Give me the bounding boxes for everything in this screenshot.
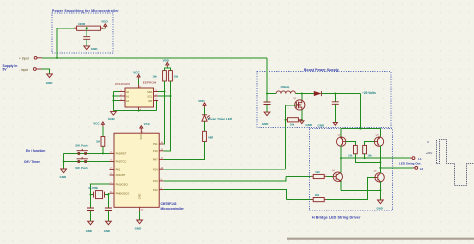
ground (mosfet source)	[300, 121, 313, 127]
junction A1 tie	[112, 95, 114, 97]
svg-text:Power Smoothing for Microcontr: Power Smoothing for Microcontroller	[52, 9, 119, 13]
wire P13 to left base resistor	[163, 176, 286, 181]
capacitor C osc1	[87, 208, 94, 211]
diode D2 boost	[314, 91, 322, 96]
svg-text:GND: GND	[305, 123, 313, 127]
svg-text:PM1/OSCI: PM1/OSCI	[116, 182, 129, 186]
svg-text:P13: P13	[153, 179, 158, 183]
resistor R SDA pullup	[152, 71, 166, 81]
resistor R led 68R	[203, 131, 214, 141]
power flag VCC (mcu)	[140, 122, 151, 130]
junction output cap	[334, 93, 336, 95]
wire emitters to gnd	[379, 190, 381, 200]
svg-text:GND: GND	[104, 229, 110, 233]
resistor R gate pulldown 10k	[286, 118, 302, 127]
capacitor C in (boost)	[264, 94, 271, 112]
wire npn-left base	[327, 175, 334, 177]
resistor R SCL pullup	[169, 71, 179, 81]
svg-text:Off / Timer: Off / Timer	[24, 160, 41, 164]
transistor Q3 PNP right	[374, 129, 383, 147]
junction A2 tie	[112, 100, 114, 102]
svg-text:GND: GND	[262, 122, 270, 126]
junction mosfet source/pulldown	[301, 119, 303, 121]
svg-text:32.768k: 32.768k	[88, 186, 98, 190]
block box: Boost Power Supply	[257, 72, 391, 128]
svg-text:10k: 10k	[152, 75, 157, 79]
svg-text:H Bridge LED String Driver: H Bridge LED String Driver	[312, 215, 361, 219]
pin VCC of eeprom	[138, 85, 140, 89]
svg-text:P10: P10	[153, 149, 158, 153]
resistor R npn-left base 1k0	[286, 170, 327, 179]
block box: Power Smoothing for Microcontroller	[52, 13, 113, 53]
power flag VCC (rst pullup)	[93, 122, 104, 127]
ground (supply minus)	[46, 74, 54, 85]
junction rail/smoothing feed	[56, 57, 58, 59]
junction eeprom gnd pin	[138, 110, 140, 112]
junction L2 node	[379, 167, 381, 169]
LED D1 green timer	[202, 115, 233, 121]
svg-text:VCC: VCC	[144, 122, 151, 126]
wire +5V rail	[42, 57, 267, 59]
svg-text:P11: P11	[153, 142, 158, 146]
svg-text:L2: L2	[420, 167, 424, 171]
svg-text:AT24C02N: AT24C02N	[115, 82, 130, 86]
svg-text:GND: GND	[86, 229, 92, 233]
wire OSC1 to crystal	[91, 184, 110, 195]
svg-text:100uH: 100uH	[280, 85, 289, 89]
svg-text:GND: GND	[108, 117, 116, 121]
MCU body	[114, 133, 159, 207]
svg-text:PM0/OSCO: PM0/OSCO	[116, 191, 130, 195]
wire OSC2 to crystal	[108, 193, 109, 194]
waveform trace	[437, 140, 474, 186]
svg-text:100R: 100R	[78, 22, 86, 26]
svg-text:Microcontroller: Microcontroller	[161, 207, 185, 211]
capacitor C out (boost)	[332, 94, 339, 123]
EEPROM U2 body	[125, 88, 154, 107]
wire rail-to-resistor	[57, 28, 74, 58]
svg-text:+ Input: + Input	[19, 56, 29, 60]
svg-text:10k: 10k	[290, 122, 295, 126]
junction emitters	[379, 189, 381, 191]
svg-text:PA4/INT: PA4/INT	[116, 173, 126, 177]
svg-text:PA7: PA7	[153, 158, 158, 162]
svg-text:VDD: VDD	[101, 20, 108, 24]
right pin PA7	[159, 158, 163, 160]
ground (buttons)	[60, 169, 68, 179]
ground (mcu)	[135, 220, 143, 231]
junction cross-couple right	[379, 161, 381, 163]
svg-text:L1: L1	[418, 157, 422, 161]
ground (osc cap1)	[86, 221, 94, 233]
wire cap1 to gnd	[90, 211, 92, 221]
wire -input to gnd	[41, 69, 49, 74]
ground (h-bridge)	[377, 200, 384, 210]
wire SCL to pullup column	[158, 95, 170, 97]
resistor R base left 10k	[348, 145, 357, 157]
svg-text:GND: GND	[318, 123, 326, 127]
connector pin + Input	[19, 56, 42, 60]
power flag VDD (pullups)	[163, 59, 170, 67]
junction buttons common	[63, 161, 65, 163]
pin A1	[119, 95, 125, 97]
wire diode to output corner	[321, 93, 360, 95]
svg-text:VDD: VDD	[140, 134, 143, 139]
svg-text:LED String Out: LED String Out	[399, 162, 421, 166]
wire right resistor to row1	[364, 154, 366, 158]
junction SDA	[164, 91, 166, 93]
junction mosfet drain	[301, 93, 303, 95]
pin A0	[119, 91, 125, 93]
junction right resistor bottom	[364, 157, 366, 159]
left pin PA4/INT	[110, 174, 115, 176]
resistor R base right 10k	[363, 145, 373, 157]
svg-text:10k: 10k	[174, 75, 179, 79]
wire address-pins tie	[113, 92, 119, 111]
crystal Y1 32.768k	[88, 186, 108, 198]
svg-text:VCC: VCC	[133, 71, 140, 75]
eeprom pin numbers	[120, 86, 157, 111]
svg-text:GND: GND	[60, 175, 68, 179]
wire cap to gnd	[86, 40, 88, 46]
junction L1 node	[340, 157, 342, 159]
block box: H Bridge LED String Driver	[310, 129, 393, 211]
svg-text:SW_Push: SW_Push	[75, 166, 88, 170]
svg-text:PA2/TCC: PA2/TCC	[116, 160, 127, 164]
mosfet Q1 N-channel	[295, 94, 305, 120]
resistor R pullup 1M	[96, 137, 105, 147]
junction boost input	[266, 93, 268, 95]
switch SW2 SW_Push	[75, 157, 88, 170]
svg-text:En / function: En / function	[26, 149, 45, 153]
waveform axis	[436, 140, 438, 164]
svg-text:CMT8F143: CMT8F143	[161, 202, 177, 206]
wire left resistor cross-couple	[355, 154, 380, 163]
connector pin L1	[410, 157, 422, 161]
wire top rail	[341, 128, 380, 130]
svg-text:SDA: SDA	[147, 91, 152, 94]
pin VDD top	[140, 131, 142, 134]
transistor Q2 PNP left	[337, 129, 346, 147]
wire vdd to led	[204, 107, 206, 114]
wire pnp-left base to resistor	[346, 142, 356, 146]
wire buttons common to gnd	[63, 153, 65, 168]
svg-text:VDD: VDD	[163, 59, 170, 63]
svg-text:- Input: - Input	[19, 68, 28, 72]
svg-text:PA1: PA1	[116, 168, 121, 172]
svg-text:GND: GND	[377, 206, 383, 210]
pin numbers mcu	[110, 131, 164, 211]
ground (boost output cap)	[318, 122, 338, 127]
switch SW1 SW_Push	[75, 144, 88, 155]
svg-text:VCC: VCC	[93, 122, 100, 126]
wire P12 to right base resistor	[163, 190, 286, 200]
left pin PA2/TCC	[110, 161, 115, 163]
wire L1 row	[341, 157, 410, 159]
right pin P12	[159, 189, 163, 191]
left pin PA3/RST	[110, 152, 115, 154]
svg-text:P12: P12	[153, 188, 158, 192]
wire button row 2	[64, 161, 110, 163]
wire WP return	[157, 101, 159, 111]
right pin P10	[159, 150, 163, 152]
wire input to inductor	[267, 93, 276, 95]
junction crystal left	[90, 194, 92, 196]
ground (eeprom)	[108, 112, 116, 121]
wire resistor-to-VDD	[103, 27, 105, 29]
left pin PM0/OSCO	[110, 192, 115, 194]
wire pnp-left collector down	[340, 146, 342, 173]
wire L2 row	[380, 167, 413, 169]
capacitor C1	[83, 37, 90, 40]
svg-text:~20 Volts: ~20 Volts	[362, 91, 376, 95]
wire mcu gnd	[139, 211, 141, 220]
wire eeprom bottom gnd bus	[113, 110, 156, 112]
inductor L1 100uH	[276, 85, 295, 93]
wire led to resistor	[204, 121, 206, 131]
pin GND bottom	[139, 207, 141, 211]
junction rail feed	[359, 128, 361, 130]
wire to capacitor C1	[86, 28, 88, 36]
pin SDA stub	[154, 91, 159, 93]
svg-text:68R: 68R	[208, 136, 213, 140]
pin GND of eeprom	[138, 107, 140, 111]
transistor Q4 NPN left	[333, 158, 342, 190]
svg-text:WP: WP	[148, 100, 152, 103]
connector pin - Input	[19, 68, 41, 72]
wire gate riser from MCU P14	[163, 105, 285, 169]
svg-text:EEPROM: EEPROM	[143, 80, 157, 84]
right pin P13	[159, 180, 163, 182]
wire SDA column down to MCU P11	[163, 81, 164, 144]
wire rail into boost	[266, 58, 268, 94]
svg-text:10k: 10k	[348, 153, 353, 157]
svg-text:+20V: +20V	[426, 151, 433, 155]
ground (osc cap2)	[104, 221, 112, 233]
wire crystal right to cap	[107, 195, 109, 208]
transistor reference specks	[293, 98, 379, 173]
left pin PM1/OSCI	[110, 183, 115, 185]
ground (boost input cap)	[262, 112, 270, 126]
power flag VDD (led)	[198, 99, 206, 107]
ground (smoothing cap)	[84, 46, 99, 51]
wire pnp-right collector down	[379, 146, 381, 168]
power flag VCC (eeprom)	[133, 71, 140, 79]
wire cap2 to gnd	[107, 211, 109, 221]
right pin P14	[159, 168, 163, 170]
svg-text:VDD: VDD	[198, 99, 205, 103]
pin SCL stub	[154, 95, 159, 97]
wire resistor to PA7	[163, 142, 204, 160]
wire vcc to pullup	[102, 127, 104, 137]
sheet edge line bottom right	[287, 238, 474, 240]
right pin P11	[159, 143, 163, 145]
svg-text:GND: GND	[135, 227, 143, 231]
junction gate riser/pulldown	[285, 119, 287, 121]
svg-text:GND: GND	[91, 47, 99, 51]
svg-text:SCL: SCL	[147, 95, 152, 98]
junction at resistor/cap	[86, 27, 88, 29]
wire emitter tie	[341, 189, 380, 191]
svg-text:Green Timer LED: Green Timer LED	[208, 117, 233, 121]
resistor R npn-right base 1k0	[286, 193, 326, 202]
svg-text:P14: P14	[153, 167, 158, 171]
wire SDA to pullup column	[158, 91, 164, 93]
svg-text:1k0: 1k0	[315, 193, 320, 197]
wire inductor to diode	[295, 93, 313, 95]
power flag VDD (smoothing)	[101, 20, 108, 29]
connector pin L2	[413, 167, 423, 171]
svg-text:10k: 10k	[367, 153, 372, 157]
wire gate	[286, 104, 297, 106]
transistor Q5 NPN right	[375, 168, 385, 190]
wire pnp-right base to resistor	[365, 142, 375, 146]
pin WP stub	[154, 100, 159, 102]
wire vcc pin up	[138, 79, 140, 85]
resistor R1	[74, 22, 103, 31]
wire pullup tops to VDD	[165, 67, 171, 71]
svg-text:Boost Power Supply: Boost Power Supply	[304, 68, 339, 72]
svg-text:1k0: 1k0	[315, 170, 320, 174]
wire SCL column down to MCU P10	[163, 81, 170, 151]
junction SCL	[170, 95, 172, 97]
wire button row 1	[64, 152, 110, 154]
svg-text:PA3/RST: PA3/RST	[116, 152, 127, 156]
wire pullup to row1	[102, 146, 104, 153]
wire crystal left to cap	[90, 195, 92, 208]
svg-text:SW_Push: SW_Push	[75, 144, 88, 148]
pin A2	[119, 100, 125, 102]
capacitor C osc2	[105, 208, 112, 211]
junction crystal right	[107, 194, 109, 196]
svg-text:GND: GND	[139, 193, 142, 199]
wire right resistor to npn-right base	[327, 177, 375, 199]
junction pullup/row1	[102, 152, 104, 154]
left pin PA1	[110, 168, 115, 170]
svg-text:GND: GND	[46, 81, 54, 85]
wire +20V feed down	[359, 94, 361, 129]
